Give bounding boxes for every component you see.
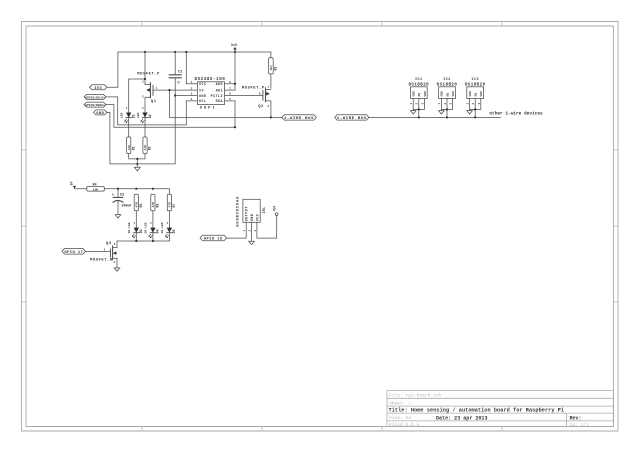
svg-text:Rev:: Rev: [570,415,582,421]
svg-text:D2: D2 [148,114,152,118]
svg-text:GPIO2(SDA0): GPIO2(SDA0) [85,103,105,107]
svg-text:10K: 10K [93,188,99,191]
wire LED cathode rail [117,240,169,242]
svg-text:Title: Home sensing / automati: Title: Home sensing / automation board f… [389,407,565,413]
net label GPIO 18 [200,235,227,241]
wire R3 connections [270,52,272,88]
resistor R2 [143,137,152,154]
title block [387,391,614,427]
svg-text:1: 1 [103,249,105,252]
svg-text:GND: GND [441,91,444,97]
svg-text:GND: GND [96,112,104,116]
svg-text:VDD: VDD [452,91,455,97]
wire IC3 pins [470,99,481,118]
svg-text:GPIO 17: GPIO 17 [64,251,83,255]
svg-text:KiCad E.D.A.: KiCad E.D.A. [389,422,422,428]
wire 3V3 net [107,52,271,87]
LED D4 (IR-LED) [144,211,160,241]
wire GND net lower rail [107,112,175,163]
net label 3V3 [90,85,108,91]
sensor IC3 DS18B20 [465,78,486,104]
svg-text:1: 1 [150,222,152,225]
svg-text:2: 2 [268,105,270,108]
svg-text:100uF: 100uF [121,204,131,208]
svg-text:SDA: SDA [216,99,223,103]
wire VCC branch [186,52,197,84]
LED D2 [136,107,152,137]
net label GPIO2(SDA0) [84,102,106,107]
svg-text:1: 1 [191,81,193,84]
svg-text:C2: C2 [120,193,124,197]
sensor IC2 DS18B20 [437,78,458,104]
svg-text:MOSFET_N: MOSFET_N [90,259,113,263]
svg-text:Q3: Q3 [106,242,112,246]
ground IC3 [467,111,473,114]
svg-text:PCTLZ: PCTLZ [211,94,223,98]
op-amp U1 : DS2482-100 IC box [191,77,232,111]
svg-text:GPIO 18: GPIO 18 [204,238,223,242]
svg-text:GND: GND [469,91,472,97]
svg-text:D3: D3 [139,229,143,233]
svg-text:1: 1 [268,86,270,89]
ground Q3 [114,268,120,271]
transistor Q3 (MOSFET_N) [90,241,117,268]
LED D1 [120,107,136,137]
svg-text:3: 3 [142,80,144,83]
svg-text:DQ: DQ [446,93,449,97]
wire Q1 source to D1 anode [129,78,146,113]
svg-text:3V3: 3V3 [94,87,102,91]
svg-text:1: 1 [156,87,158,90]
wire 5V LED rail [104,188,169,195]
svg-text:SCL: SCL [199,99,206,103]
svg-text:2: 2 [142,96,144,99]
svg-text:IC1: IC1 [415,78,423,82]
svg-text:VCC: VCC [256,214,260,222]
svg-text:1: 1 [126,107,128,110]
svg-text:Date: 23 apr 2013: Date: 23 apr 2013 [436,415,488,421]
svg-text:Size: A4: Size: A4 [389,415,411,421]
LED D5 (IR-LED) [160,211,176,241]
ground C2 [115,215,121,218]
svg-text:IR1: IR1 [263,207,267,213]
wire PCTLZ net (pin6 to Q2 gate) [225,95,263,97]
svg-text:C1: C1 [178,71,183,75]
svg-text:1: 1 [142,107,144,110]
ground symbol (main) [134,164,140,171]
svg-text:LED: LED [120,112,124,118]
svg-text:R5: R5 [139,204,143,208]
net label 1-WIRE BUS (right) [335,115,369,121]
wire Q1 drain to D2 [144,97,146,112]
net label GPIO 17 [62,249,86,255]
ground IR1 [249,241,255,244]
wire AD0/AD1 net [225,50,236,90]
svg-text:IO: IO [199,88,204,92]
net label GPIO3(SCL0) [84,94,106,99]
wire IC2 pins [441,99,452,118]
svg-text:VDD: VDD [480,91,483,97]
svg-text:VCC: VCC [199,82,206,86]
svg-text:IR-LED: IR-LED [160,222,164,233]
wire 1-wire bus to sensors [369,116,501,118]
sensor IC1 DS18B20 [408,78,429,104]
svg-text:R2: R2 [148,146,152,150]
svg-text:File: rpi-board.sch: File: rpi-board.sch [389,393,442,399]
svg-text:6: 6 [259,92,261,95]
svg-text:+5V: +5V [273,206,277,212]
svg-text:R3: R3 [274,67,278,71]
svg-text:1-WIRE BUS: 1-WIRE BUS [284,117,314,121]
svg-text:1-WIRE BUS: 1-WIRE BUS [337,117,367,121]
svg-text:AD1: AD1 [216,88,223,92]
capacitor C1 [169,52,183,96]
power 3v3 flag (AD pins) [231,44,237,50]
wire GND pin net (C1 bottom to DS2482 pin3, down to ground rail) [174,94,197,163]
svg-text:D4: D4 [156,229,160,233]
svg-text:IC2: IC2 [443,78,451,82]
resistor R1 [127,137,136,154]
svg-text:VDD: VDD [424,91,427,97]
node 3V3 rail junctions [144,51,236,53]
wire IO net (Q1 gate, DS2482 pin2, 1-wire bus) [157,89,282,119]
wire IC1 pins [413,99,424,118]
wire IR1 GND pin [251,222,253,241]
svg-text:3: 3 [114,243,116,246]
svg-text:IR-LED: IR-LED [127,222,131,233]
svg-text:R1: R1 [131,146,135,150]
svg-text:R4: R4 [93,182,97,186]
svg-text:AD0: AD0 [216,82,223,86]
svg-text:Sheet: /: Sheet: / [389,400,411,406]
resistor R5 [134,194,143,211]
wire resistor bottoms to ground junction [129,154,145,165]
svg-text:R6: R6 [156,204,160,208]
IR receiver IR1 GS9B38C9AA [236,196,267,232]
svg-text:D5: D5 [172,229,176,233]
svg-text:LED: LED [136,112,140,118]
wire IR1 VCC to +5V [257,216,277,239]
svg-text:GND: GND [251,214,255,222]
power +5V flag (LED driver) [70,181,76,188]
transistor Q2 (MOSFET_P) [242,86,271,118]
resistor R6 [151,194,160,211]
LED D3 (IR-LED) [127,211,143,241]
capacitor C2 (100uF) [112,189,132,215]
svg-text:3: 3 [191,93,193,96]
svg-text:MOSFET_P: MOSFET_P [242,87,265,91]
power +5V flag (IR receiver) [273,206,278,216]
svg-text:OUTPUT: OUTPUT [246,206,250,221]
net label GND [94,110,108,116]
svg-text:2: 2 [191,87,193,90]
svg-text:IC3: IC3 [471,78,479,82]
svg-text:5V: 5V [70,181,74,185]
wire SDA net [106,101,236,128]
svg-text:GND: GND [199,94,206,98]
svg-text:IR-LED: IR-LED [144,222,148,233]
svg-text:GS9B38C9AA: GS9B38C9AA [236,196,240,227]
svg-text:DQ: DQ [418,93,421,97]
svg-text:DQ: DQ [475,93,478,97]
svg-text:GPIO3(SCL0): GPIO3(SCL0) [85,95,105,99]
transistor Q1 (MOSFET_P) [137,52,160,104]
svg-text:4: 4 [191,98,193,101]
svg-text:SOP1: SOP1 [200,107,217,111]
ground IC1 [410,111,416,114]
svg-text:R7: R7 [172,204,176,208]
resistor R4 [75,182,105,191]
svg-text:2: 2 [114,261,116,264]
svg-text:Q1: Q1 [151,100,157,104]
svg-text:Id: 1/1: Id: 1/1 [570,422,590,428]
wire GPIO18 to IR1 output [227,222,247,238]
svg-text:3v3: 3v3 [231,44,237,48]
wire GPIO17 to Q3 gate [86,250,111,252]
ground IC2 [439,111,445,114]
resistor R3 [269,58,278,74]
svg-text:+: + [112,194,114,198]
svg-text:5: 5 [229,98,231,101]
svg-text:other 1-wire devices: other 1-wire devices [489,111,543,117]
svg-text:1: 1 [166,222,168,225]
svg-text:1: 1 [133,222,135,225]
resistor R7 [167,194,176,211]
wire SCL net [106,97,197,125]
svg-text:MOSFET_P: MOSFET_P [137,73,160,77]
svg-text:Q2: Q2 [258,105,264,109]
net label 1-WIRE BUS (left) [282,115,317,121]
svg-text:GND: GND [412,91,415,97]
